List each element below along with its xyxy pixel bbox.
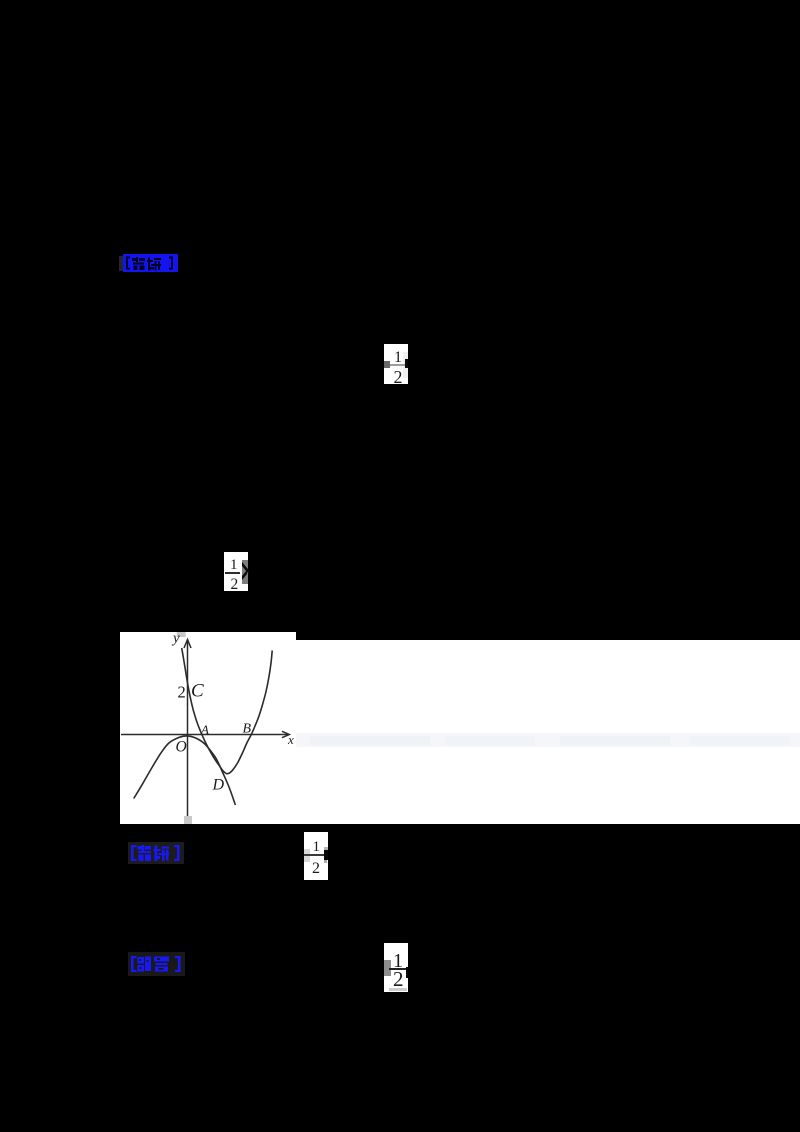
fraction F4 (1/2) — [384, 943, 408, 992]
hill curve2 (downward parabola) — [134, 736, 236, 805]
svg-text:A: A — [200, 722, 209, 737]
svg-text:O: O — [176, 739, 187, 756]
svg-text:y: y — [171, 632, 180, 647]
selection handle top — [177, 632, 186, 637]
labels — [171, 631, 294, 794]
fraction F2 (1/2) — [224, 552, 248, 591]
label L1 (blue highlighted bracket label) — [119, 256, 123, 271]
svg-text:D: D — [212, 777, 225, 794]
faint gray text-line band inside white region — [296, 733, 800, 747]
label L3 (blue 解答 label on dark box) — [128, 952, 185, 976]
svg-text:B: B — [243, 722, 252, 737]
selection handle bottom — [184, 816, 192, 824]
svg-text:x: x — [287, 732, 294, 747]
fraction F3 (1/2) — [304, 832, 328, 880]
parabola curve1 through C,A,D,B — [182, 648, 273, 774]
svg-text:2: 2 — [178, 683, 186, 702]
y-axis — [121, 640, 289, 817]
x-axis — [121, 734, 289, 736]
figure box with graph — [120, 632, 296, 824]
fraction F1 (1/2) — [384, 344, 408, 384]
svg-text:C: C — [191, 681, 204, 702]
label L2 (blue 分析 label on dark box) — [128, 842, 184, 864]
white band region (right of figure) — [296, 640, 800, 824]
